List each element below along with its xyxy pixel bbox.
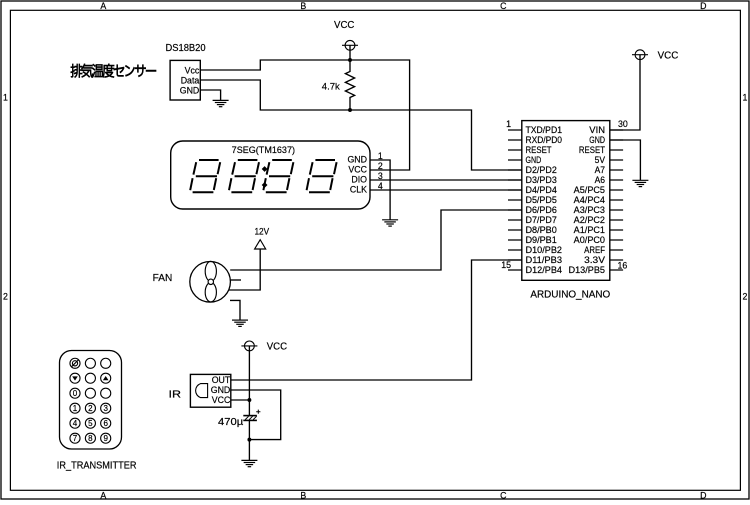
svg-text:OUT: OUT	[212, 375, 231, 385]
digit buttons	[73, 389, 109, 443]
svg-text:RESET: RESET	[526, 145, 553, 155]
svg-text:C: C	[500, 490, 507, 500]
node junction resistor bottom/Data rail	[348, 108, 352, 112]
svg-text:7: 7	[73, 434, 78, 443]
svg-text:A6: A6	[595, 175, 605, 185]
svg-text:TXD/PD1: TXD/PD1	[526, 125, 563, 135]
svg-text:D4/PD4: D4/PD4	[526, 185, 557, 195]
VCC symbol right	[632, 50, 648, 60]
down arrow button	[72, 376, 78, 380]
power button glyph	[72, 360, 79, 367]
svg-text:Vcc: Vcc	[185, 65, 200, 75]
svg-text:2: 2	[3, 292, 8, 302]
svg-text:1: 1	[73, 404, 78, 413]
7SEG pin numbers 1-4	[378, 151, 383, 191]
wire 7SEG DIO pin3 to Arduino D3/PD3	[370, 179, 522, 181]
svg-text:D8/PB0: D8/PB0	[526, 225, 557, 235]
sensor U DS18B20 box	[170, 60, 200, 100]
svg-text:D: D	[700, 1, 706, 11]
svg-text:A: A	[100, 1, 106, 11]
svg-text:A3/PC3: A3/PC3	[574, 205, 605, 215]
ground at FAN	[232, 320, 248, 326]
svg-text:30: 30	[618, 119, 628, 129]
svg-text:7SEG(TM1637): 7SEG(TM1637)	[232, 145, 295, 155]
wire 7SEG CLK pin4 to Arduino D4/PD4	[370, 189, 522, 191]
svg-text:9: 9	[103, 434, 108, 443]
svg-text:DS18B20: DS18B20	[166, 43, 207, 54]
svg-text:12V: 12V	[254, 226, 269, 236]
svg-text:D10/PB2: D10/PB2	[526, 245, 563, 255]
svg-text:A: A	[100, 490, 106, 500]
svg-text:4.7k: 4.7k	[322, 82, 341, 92]
svg-text:AREF: AREF	[584, 245, 605, 255]
svg-text:A2/PC2: A2/PC2	[574, 215, 605, 225]
svg-text:2: 2	[88, 404, 93, 413]
svg-text:D2/PD2: D2/PD2	[526, 165, 557, 175]
DS18B20 pin labels	[180, 65, 200, 95]
wire IR OUT to Arduino D11/PB3	[231, 260, 522, 380]
ARDUINO_NANO left pin labels	[526, 125, 563, 275]
wire 7SEG GND pin1 to ground	[370, 160, 390, 220]
ARDUINO_NANO right pin labels	[569, 125, 606, 275]
svg-text:GND: GND	[211, 385, 231, 395]
display U 7SEG(TM1637) box	[171, 141, 370, 209]
remote buttons	[70, 358, 111, 443]
wire IR VCC pin	[231, 399, 250, 401]
svg-text:VCC: VCC	[658, 50, 679, 61]
svg-text:D: D	[700, 490, 706, 500]
wire FAN upper pin to Arduino D6/PD6	[230, 210, 522, 270]
svg-text:A7: A7	[595, 165, 605, 175]
svg-text:GND: GND	[526, 155, 542, 165]
svg-text:D9/PB1: D9/PB1	[526, 235, 557, 245]
svg-text:A1/PC1: A1/PC1	[574, 225, 605, 235]
svg-text:IR: IR	[169, 390, 182, 401]
svg-text:A0/PC0: A0/PC0	[574, 235, 605, 245]
svg-text:DIO: DIO	[351, 175, 367, 185]
ARDUINO_NANO pin stubs	[508, 130, 623, 270]
IR lens shape	[196, 384, 208, 398]
receiver U IR box	[190, 374, 230, 407]
svg-text:GND: GND	[589, 135, 605, 145]
svg-text:2: 2	[378, 161, 383, 171]
svg-text:15: 15	[501, 260, 511, 270]
svg-text:B: B	[300, 1, 306, 11]
svg-text:4: 4	[73, 419, 78, 428]
mcu U ARDUINO_NANO box	[522, 121, 610, 281]
svg-text:C: C	[500, 1, 507, 11]
svg-text:8: 8	[88, 434, 93, 443]
remote IR_TRANSMITTER body	[60, 351, 122, 450]
ground at IR cap	[241, 460, 257, 466]
wire DS18B20 Data to 4.7k bottom rail to Arduino D2/PD2	[200, 80, 522, 170]
wire DS18B20 Vcc to VCC rail to 7SEG VCC pin2	[200, 60, 409, 170]
svg-text:3.3V: 3.3V	[584, 255, 605, 265]
svg-text:16: 16	[618, 260, 628, 270]
svg-text:VCC: VCC	[348, 165, 367, 175]
svg-text:3: 3	[103, 404, 108, 413]
svg-text:D11/PB3: D11/PB3	[526, 255, 563, 265]
VCC symbol top	[349, 45, 351, 60]
pin numbers 1 30 15 16	[501, 119, 628, 270]
svg-text:VIN: VIN	[589, 125, 605, 135]
wire IR GND loop to cap bottom	[231, 390, 281, 440]
wire Arduino GND to ground	[610, 140, 641, 180]
svg-text:VCC: VCC	[334, 20, 354, 31]
svg-text:GND: GND	[180, 85, 200, 95]
node junction VCC/resistor top	[348, 58, 352, 62]
svg-text:ARDUINO_NANO: ARDUINO_NANO	[530, 289, 610, 300]
svg-text:0: 0	[73, 389, 78, 398]
IR pin labels	[211, 375, 231, 405]
svg-text:CLK: CLK	[350, 185, 367, 195]
motor M FAN symbol	[190, 261, 231, 302]
svg-text:1: 1	[3, 93, 8, 103]
label 排気温度センサー	[71, 64, 156, 78]
VCC symbol at IR	[248, 346, 250, 400]
power symbol 12V triangle	[255, 240, 266, 249]
svg-text:B: B	[300, 490, 306, 500]
7SEG pin labels	[347, 155, 367, 195]
svg-text:1: 1	[506, 119, 511, 129]
svg-text:Data: Data	[181, 75, 200, 85]
ground at Arduino	[632, 180, 648, 186]
svg-text:5V: 5V	[595, 155, 606, 165]
FAN middle stub	[230, 279, 241, 281]
svg-text:D13/PB5: D13/PB5	[569, 265, 606, 275]
svg-text:D12/PB4: D12/PB4	[526, 265, 563, 275]
svg-text:5: 5	[88, 419, 93, 428]
svg-text:A4/PC4: A4/PC4	[574, 195, 605, 205]
svg-text:470µ: 470µ	[218, 417, 244, 428]
svg-text:RESET: RESET	[579, 145, 606, 155]
ground at DS18B20	[213, 100, 229, 106]
capacitor C 470u	[248, 400, 250, 415]
node junction IR VCC	[247, 398, 251, 402]
svg-text:A5/PC5: A5/PC5	[574, 185, 605, 195]
wire DS18B20 GND to ground	[200, 90, 220, 100]
svg-text:D7/PD7: D7/PD7	[526, 215, 557, 225]
wire VIN to VCC	[610, 55, 640, 130]
7seg digits	[190, 160, 220, 192]
svg-text:VCC: VCC	[212, 395, 231, 405]
node junction cap bottom	[247, 438, 251, 442]
wire FAN to ground	[230, 300, 240, 320]
svg-text:2: 2	[742, 292, 747, 302]
resistor R 4.7k	[345, 60, 354, 110]
svg-text:D3/PD3: D3/PD3	[526, 175, 557, 185]
up arrow button	[103, 376, 109, 380]
svg-text:GND: GND	[347, 155, 367, 165]
svg-text:FAN: FAN	[153, 273, 173, 284]
colon dots	[262, 166, 268, 188]
svg-text:VCC: VCC	[267, 341, 287, 352]
svg-text:D5/PD5: D5/PD5	[526, 195, 557, 205]
ground at 7SEG	[382, 220, 398, 226]
svg-text:D6/PD6: D6/PD6	[526, 205, 557, 215]
svg-text:1: 1	[742, 93, 747, 103]
svg-text:RXD/PD0: RXD/PD0	[526, 135, 563, 145]
svg-text:IR_TRANSMITTER: IR_TRANSMITTER	[57, 460, 137, 471]
svg-text:6: 6	[103, 419, 108, 428]
wire 12V to FAN lower pin	[229, 249, 261, 290]
